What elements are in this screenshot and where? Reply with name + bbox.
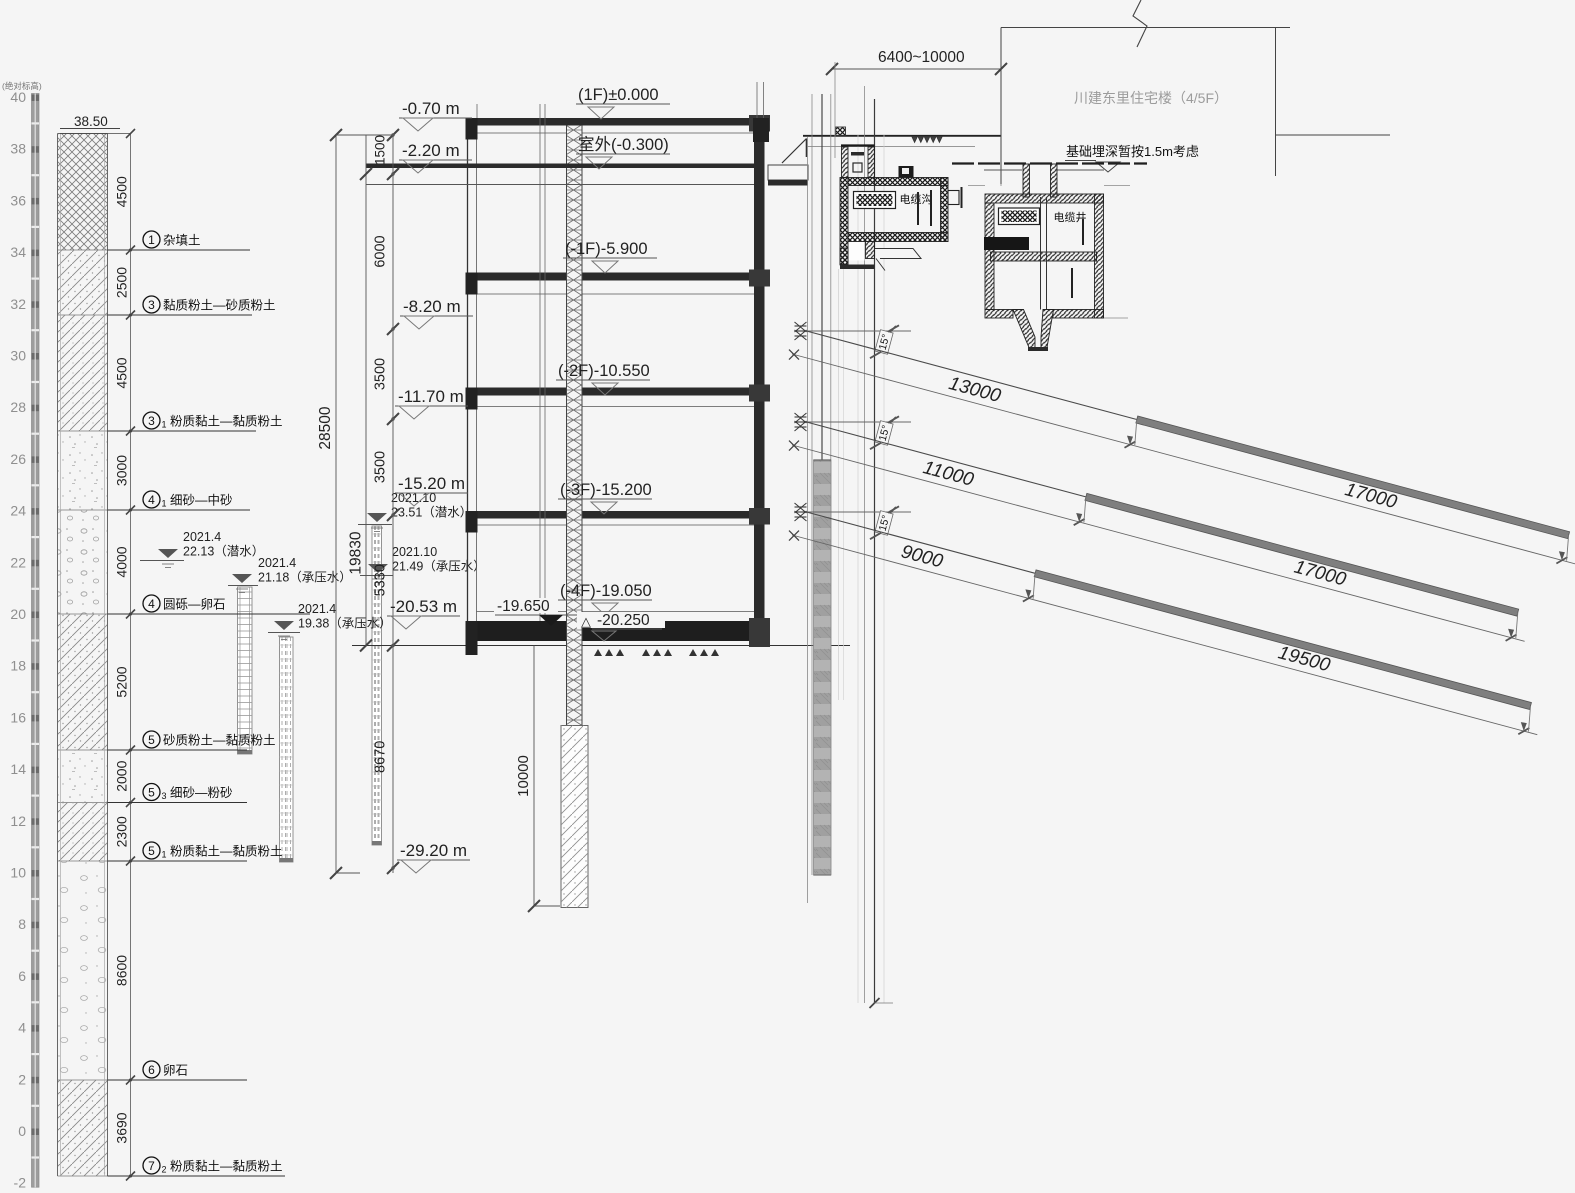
ground line -0.70 right of wall	[803, 135, 1001, 137]
ground line at cable well	[952, 162, 1147, 164]
water level 2021.4 22.13 (phreatic)	[140, 530, 264, 568]
svg-text:电缆井: 电缆井	[1054, 210, 1087, 224]
svg-text:4500: 4500	[114, 176, 130, 207]
thin ceiling lines	[477, 132, 755, 134]
svg-text:2021.4: 2021.4	[298, 602, 336, 616]
svg-text:6: 6	[18, 968, 26, 984]
svg-text:2: 2	[162, 1165, 167, 1175]
retaining pile wall lines	[807, 137, 809, 903]
svg-text:基础埋深暂按1.5m考虑: 基础埋深暂按1.5m考虑	[1066, 144, 1199, 159]
svg-text:(-2F)-10.550: (-2F)-10.550	[558, 362, 650, 380]
svg-text:8: 8	[18, 916, 26, 932]
anchor row 1: free 13000, bond 17000	[789, 322, 1575, 566]
svg-text:4500: 4500	[114, 357, 130, 388]
soil layer thickness dimension chain	[130, 134, 132, 1177]
svg-text:4: 4	[18, 1020, 26, 1036]
anchor row 3: free 9000, bond 19500	[789, 503, 1537, 737]
water level 2021.10 21.49 (confined)	[360, 545, 486, 583]
svg-text:5: 5	[148, 786, 155, 800]
outdoor level -0.300	[576, 135, 670, 169]
svg-text:细砂—中砂: 细砂—中砂	[170, 493, 233, 508]
svg-text:3000: 3000	[114, 455, 130, 486]
svg-text:21.18（承压水）: 21.18（承压水）	[258, 571, 352, 585]
stub box right of wall	[768, 165, 808, 186]
svg-text:20: 20	[10, 606, 26, 622]
svg-text:6000: 6000	[373, 235, 389, 267]
svg-text:电缆沟: 电缆沟	[900, 193, 933, 206]
svg-text:细砂—粉砂: 细砂—粉砂	[170, 785, 233, 800]
level -20.250	[577, 612, 665, 641]
svg-text:-2: -2	[14, 1175, 27, 1191]
existing building outline	[1001, 28, 1390, 185]
break line symbol	[1133, 0, 1147, 47]
svg-text:粉质黏土—黏质粉土: 粉质黏土—黏质粉土	[170, 1159, 283, 1174]
svg-text:4: 4	[148, 493, 155, 507]
bored pile under lattice column	[561, 726, 588, 908]
svg-text:杂填土: 杂填土	[163, 234, 201, 248]
overall dimension line 19830	[348, 135, 373, 652]
level label -0.70 m	[399, 99, 472, 131]
svg-text:5: 5	[148, 733, 155, 747]
svg-text:28500: 28500	[317, 406, 334, 449]
interior column lines	[539, 104, 541, 621]
water level 2021.4 21.18 (confined)	[228, 556, 352, 593]
svg-text:3500: 3500	[373, 451, 389, 483]
svg-text:(1F)±0.000: (1F)±0.000	[578, 86, 659, 104]
svg-text:28: 28	[10, 399, 26, 415]
lines above building top	[756, 82, 758, 118]
overall dimension line 28500	[317, 129, 360, 879]
svg-text:川建东里住宅楼（4/5F）: 川建东里住宅楼（4/5F）	[1074, 90, 1228, 106]
svg-text:2000: 2000	[114, 760, 130, 791]
svg-text:1: 1	[162, 420, 167, 430]
svg-text:10: 10	[10, 865, 26, 881]
svg-text:3690: 3690	[114, 1112, 130, 1143]
elevation ruler numbers	[10, 89, 26, 1191]
level (-4F)-19.050	[558, 582, 652, 615]
svg-text:7: 7	[148, 1159, 155, 1173]
svg-text:-11.70 m: -11.70 m	[398, 387, 464, 406]
svg-text:-8.20 m: -8.20 m	[403, 297, 461, 316]
svg-text:1: 1	[148, 233, 155, 247]
level -19.650	[494, 598, 582, 626]
soil column borders	[57, 134, 59, 1177]
level label -8.20 m	[400, 297, 473, 329]
svg-text:19830: 19830	[348, 531, 365, 574]
svg-text:0: 0	[18, 1123, 26, 1139]
ground ramp diagonal	[782, 139, 807, 164]
ground slab lines (-2.20 area)	[366, 164, 754, 169]
svg-text:2300: 2300	[114, 816, 130, 847]
witness lines below cable trench	[838, 269, 840, 700]
svg-text:5: 5	[148, 844, 155, 858]
soil column layers with hatch	[58, 134, 108, 251]
water level 2021.4 19.38 (confined)	[268, 602, 392, 640]
level (-1F)-5.900	[563, 240, 657, 273]
base slab	[468, 621, 771, 641]
svg-text:12: 12	[10, 813, 26, 829]
svg-text:14: 14	[10, 761, 26, 777]
svg-text:-0.70 m: -0.70 m	[402, 99, 460, 118]
basement outer walls	[468, 118, 765, 645]
svg-text:2021.4: 2021.4	[183, 530, 221, 544]
svg-text:5330: 5330	[373, 564, 389, 596]
ground surface hatch marks	[912, 137, 942, 143]
level label -15.20 m	[395, 474, 468, 506]
pile dimension 10000	[515, 646, 560, 913]
level label -11.70 m	[395, 387, 468, 419]
svg-text:21.49（承压水）: 21.49（承压水）	[392, 560, 486, 574]
svg-text:-2.20 m: -2.20 m	[402, 141, 460, 160]
svg-text:黏质粉土—砂质粉土: 黏质粉土—砂质粉土	[163, 298, 276, 313]
cable well structure	[968, 164, 1130, 351]
svg-text:-15.20 m: -15.20 m	[398, 474, 465, 493]
svg-text:2021.4: 2021.4	[258, 556, 296, 570]
svg-text:(-4F)-19.050: (-4F)-19.050	[560, 582, 652, 600]
foundation depth note	[1065, 144, 1199, 172]
observation well 3 (middle)	[372, 526, 382, 845]
svg-text:22.13（潜水）: 22.13（潜水）	[183, 545, 264, 559]
svg-text:16: 16	[10, 709, 26, 725]
wall junction blocks	[466, 118, 478, 140]
svg-text:圆砾—卵石: 圆砾—卵石	[163, 598, 226, 612]
svg-text:室外(-0.300): 室外(-0.300)	[578, 135, 669, 154]
svg-text:6: 6	[148, 1063, 155, 1077]
observation well 1	[238, 587, 253, 754]
anchor bond curb block at ground	[836, 127, 846, 136]
svg-text:26: 26	[10, 451, 26, 467]
svg-text:38: 38	[10, 141, 26, 157]
observation well 2	[280, 637, 294, 862]
level (-2F)-10.550	[556, 362, 650, 395]
svg-text:3500: 3500	[373, 358, 389, 390]
svg-text:1: 1	[162, 850, 167, 860]
svg-text:卵石: 卵石	[163, 1064, 188, 1078]
dimension 6400~10000	[826, 49, 1007, 186]
svg-text:粉质黏土—黏质粉土: 粉质黏土—黏质粉土	[170, 414, 283, 429]
svg-text:砂质粉土—黏质粉土: 砂质粉土—黏质粉土	[163, 733, 276, 748]
water level 2021.10 23.51 (phreatic)	[358, 491, 472, 532]
long reference lines	[857, 135, 859, 1003]
compaction marks under base slab	[594, 649, 719, 656]
soil layer boundary lines and circled labels	[108, 231, 251, 250]
svg-text:23.51（潜水）: 23.51（潜水）	[391, 506, 472, 520]
stage dimension chain (1500/6000/3500/3500/5330/8670)	[336, 129, 399, 874]
svg-text:-29.20 m: -29.20 m	[400, 841, 467, 860]
svg-text:(-1F)-5.900: (-1F)-5.900	[565, 240, 648, 258]
svg-text:4: 4	[148, 597, 155, 611]
svg-text:粉质黏土—黏质粉土: 粉质黏土—黏质粉土	[170, 844, 283, 859]
anchor row 2: free 11000, bond 17000	[789, 413, 1525, 643]
svg-text:19.38（承压水）: 19.38（承压水）	[298, 617, 392, 631]
svg-text:3: 3	[148, 414, 155, 428]
cable trench structure	[840, 146, 962, 271]
svg-text:30: 30	[10, 348, 26, 364]
svg-text:-19.650: -19.650	[497, 598, 550, 615]
svg-text:(-3F)-15.200: (-3F)-15.200	[560, 481, 652, 499]
svg-text:2500: 2500	[114, 267, 130, 298]
svg-text:1500: 1500	[373, 135, 388, 165]
svg-text:1: 1	[162, 499, 167, 509]
svg-text:40: 40	[10, 89, 26, 105]
svg-text:24: 24	[10, 503, 26, 519]
elevation ruler bar	[32, 94, 40, 1188]
level label -2.20 m	[399, 141, 472, 173]
svg-text:2021.10: 2021.10	[392, 545, 437, 559]
floor slabs	[468, 118, 765, 126]
svg-text:5200: 5200	[114, 666, 130, 697]
level (-3F)-15.200	[558, 481, 652, 514]
svg-text:△: △	[581, 614, 591, 629]
svg-text:3: 3	[148, 298, 155, 312]
level label -29.20 m	[397, 841, 470, 873]
lattice column	[567, 126, 583, 726]
svg-text:8600: 8600	[114, 955, 130, 986]
svg-text:6400~10000: 6400~10000	[878, 49, 965, 66]
soil-mix pile (grey)	[814, 460, 832, 875]
svg-text:-20.53 m: -20.53 m	[390, 597, 457, 616]
svg-text:32: 32	[10, 296, 26, 312]
level (1F)+-0.000	[576, 86, 670, 119]
svg-text:18: 18	[10, 658, 26, 674]
svg-text:4000: 4000	[114, 546, 130, 577]
svg-text:22: 22	[10, 554, 26, 570]
svg-text:8670: 8670	[373, 741, 389, 773]
svg-text:38.50: 38.50	[74, 114, 108, 129]
level label -20.53 m	[387, 597, 460, 629]
svg-text:10000: 10000	[515, 755, 532, 797]
svg-text:34: 34	[10, 244, 26, 260]
svg-text:3: 3	[162, 791, 167, 801]
svg-text:36: 36	[10, 192, 26, 208]
svg-text:2: 2	[18, 1071, 26, 1087]
svg-text:-20.250: -20.250	[597, 612, 650, 629]
